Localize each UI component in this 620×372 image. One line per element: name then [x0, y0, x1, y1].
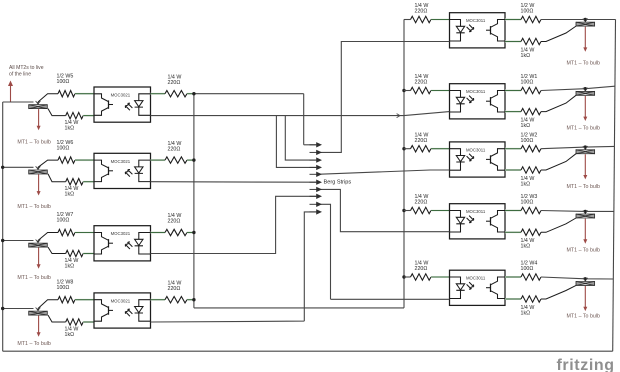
wire opto U9 to 1kΩ	[505, 298, 521, 300]
berg strip pin 10	[310, 209, 323, 214]
wire opto U7 to 1kΩ	[505, 169, 521, 171]
resistor 1/4W 220Ω row 6	[411, 87, 432, 93]
berg strip pin 5	[310, 172, 323, 177]
wire opto U5 to 100Ω	[505, 19, 521, 21]
label W4 value	[521, 261, 538, 273]
svg-text:1kΩ: 1kΩ	[65, 192, 75, 198]
svg-text:Berg Strips: Berg Strips	[324, 180, 352, 186]
svg-text:220Ω: 220Ω	[415, 80, 428, 86]
wire opto U8 to 100Ω	[505, 210, 521, 212]
opto-coupler U3 MOC3021	[94, 226, 151, 261]
opto-coupler U2 MOC3021	[94, 153, 151, 188]
berg strip pin 6	[310, 180, 323, 185]
svg-text:100Ω: 100Ω	[521, 200, 534, 206]
svg-text:MOC3011: MOC3011	[466, 147, 486, 152]
wire 1kΩ to triac Q6 gate	[541, 95, 576, 111]
opto-coupler U1 MOC3021	[94, 87, 151, 122]
label 1kΩ row 8	[521, 238, 535, 250]
label W2 value	[521, 132, 538, 144]
svg-text:MT1 – To bulb: MT1 – To bulb	[567, 126, 601, 132]
wire 100Ω to triac Q6 MT2 and live bus	[541, 86, 615, 90]
svg-text:220Ω: 220Ω	[168, 80, 181, 86]
svg-text:MT1 – To bulb: MT1 – To bulb	[17, 204, 51, 210]
wire live bus to triac Q1	[3, 101, 34, 103]
wire U1 cathode to berg pin 3	[285, 116, 316, 161]
wire anode bus drop	[303, 94, 305, 145]
wire anode bus to berg	[194, 93, 304, 95]
wire triac Q4 MT2 to resistor	[38, 300, 58, 309]
label 220Ω row 1	[168, 74, 182, 86]
node anode bus row 6	[402, 89, 405, 92]
label 220Ω row 8	[415, 194, 429, 206]
wire-end marker	[36, 101, 41, 104]
node triac Q5 MT2	[584, 18, 587, 21]
wire opto U4 anode lead	[151, 299, 166, 301]
wire U2 cathode to berg pin 6	[151, 181, 317, 184]
svg-text:220Ω: 220Ω	[415, 9, 428, 15]
wire anode bus to resistor row 7	[404, 148, 411, 150]
label W5 value	[57, 73, 74, 85]
svg-text:MT1 – To bulb: MT1 – To bulb	[17, 275, 51, 281]
svg-text:1kΩ: 1kΩ	[521, 244, 531, 250]
wire-end marker	[583, 19, 588, 22]
svg-text:MOC3021: MOC3021	[111, 231, 131, 236]
label 1kΩ row 9	[521, 305, 535, 317]
svg-text:MT1 – To bulb: MT1 – To bulb	[567, 61, 601, 67]
red arrow Q9 MT1 to bulb	[583, 286, 587, 311]
wire U6 cathode diagonal	[404, 112, 450, 116]
wire opto U3 anode lead	[151, 232, 166, 234]
wire anode bus to resistor row 9	[404, 276, 411, 278]
svg-text:1kΩ: 1kΩ	[65, 332, 75, 338]
svg-text:All MT2s to live: All MT2s to live	[9, 65, 44, 71]
wire live bus to triac Q4	[3, 308, 34, 310]
label 220Ω row 6	[415, 74, 429, 86]
resistor 1/4W 220Ω row 8	[411, 207, 432, 213]
node anode bus row 4	[192, 298, 195, 301]
node triac Q8 MT2	[584, 210, 587, 213]
wire U3 cathode to berg pin 8	[151, 196, 317, 253]
node anode bus row 2	[192, 158, 195, 161]
label 220Ω row 2	[168, 141, 182, 153]
red arrow Q4 MT1 to bulb	[37, 316, 41, 337]
svg-text:1kΩ: 1kΩ	[521, 123, 531, 129]
wire left MT2 bus	[2, 102, 4, 351]
svg-text:220Ω: 220Ω	[168, 286, 181, 292]
svg-text:220Ω: 220Ω	[168, 146, 181, 152]
wire 220Ω to opto U9	[431, 276, 449, 278]
wire anode bus to resistor row 6	[404, 90, 411, 92]
wire 100Ω to triac Q7 MT2 and live bus	[541, 146, 614, 148]
triac Q1	[29, 102, 48, 109]
node anode bus row 7	[402, 147, 405, 150]
wire U6 cathode to berg pin 4	[276, 116, 316, 168]
svg-text:1kΩ: 1kΩ	[65, 126, 75, 132]
red arrow Q2 MT1 to bulb	[37, 174, 41, 195]
resistor 1/4W 220Ω row 1	[165, 91, 187, 97]
label all MT2s to live of the line	[9, 65, 44, 78]
wire 100Ω to triac Q8 MT2 and live bus	[541, 210, 614, 213]
resistor 1/2W 100Ω W	[521, 16, 541, 22]
resistor 1/4W 1kΩ row 5	[521, 38, 541, 44]
wire opto U6 to 100Ω	[505, 90, 521, 92]
opto-coupler U5 MOC3011	[450, 13, 506, 48]
wire triac Q3 gate to resistor	[48, 247, 66, 253]
wire triac Q3 MT2 to resistor	[38, 233, 58, 241]
wire opto U2 anode lead	[151, 159, 166, 161]
svg-text:MT1 – To bulb: MT1 – To bulb	[567, 247, 601, 253]
red arrow Q7 MT1 to bulb	[583, 154, 587, 179]
svg-text:MOC3011: MOC3011	[466, 89, 486, 94]
node live bus row 4	[1, 307, 4, 310]
resistor 1/2W 100Ω W5	[58, 91, 75, 97]
resistor 1/4W 220Ω row 9	[411, 274, 432, 280]
svg-text:MT1 – To bulb: MT1 – To bulb	[17, 341, 51, 347]
wire 220Ω to anode bus	[187, 93, 194, 95]
wire U5 cathode to berg pin 2	[316, 42, 450, 153]
label W8 value	[57, 279, 74, 291]
svg-text:MOC3021: MOC3021	[111, 298, 131, 303]
label 220Ω row 4	[168, 280, 182, 292]
wire-end marker	[397, 114, 400, 118]
label 1kΩ row 2	[65, 186, 79, 198]
svg-text:220Ω: 220Ω	[415, 138, 428, 144]
triac Q9	[576, 279, 595, 286]
label 1kΩ row 7	[521, 176, 535, 188]
wire resistor to opto U4 pin	[75, 299, 94, 301]
berg strip pin 7	[310, 187, 323, 192]
red arrow Q8 MT1 to bulb	[583, 219, 587, 244]
wire resistor to opto U4 pin	[83, 321, 93, 323]
label 220Ω row 9	[415, 261, 429, 273]
wire triac Q2 gate to resistor	[48, 174, 66, 182]
wire 100Ω to triac Q9 MT2 and live bus	[541, 277, 613, 279]
opto-coupler U4 MOC3021	[94, 293, 151, 328]
node live bus row 2	[1, 166, 4, 169]
svg-text:MOC3011: MOC3011	[466, 276, 486, 281]
label 220Ω row 7	[415, 132, 429, 144]
resistor 1/2W 100Ω W1	[521, 87, 541, 93]
label W7 value	[57, 212, 74, 224]
wire 1kΩ to triac Q5 gate	[541, 26, 576, 41]
berg strip pin 1	[310, 142, 323, 147]
wire-end marker	[583, 88, 588, 91]
resistor 1/4W 1kΩ row 8	[521, 229, 541, 235]
wire anode bus to resistor row 8	[404, 210, 411, 212]
wire triac Q4 gate to resistor	[48, 315, 66, 322]
resistor 1/4W 220Ω row 4	[165, 297, 187, 303]
svg-text:220Ω: 220Ω	[415, 200, 428, 206]
berg strip pin 4	[310, 165, 323, 170]
node live bus row 3	[1, 239, 4, 242]
label 220Ω row 5	[415, 3, 429, 15]
wire opto U1 cathode / U6 cathode shared run	[151, 115, 405, 117]
svg-text:100Ω: 100Ω	[521, 80, 534, 86]
label 1kΩ row 6	[521, 118, 535, 130]
svg-text:MT1 – To bulb: MT1 – To bulb	[17, 140, 51, 146]
wire 220Ω to anode bus	[187, 299, 194, 301]
berg strip pin 3	[310, 157, 323, 162]
label 1kΩ row 5	[521, 47, 535, 59]
resistor 1/2W 100Ω W6	[58, 157, 75, 163]
wire opto U1 anode lead	[151, 93, 166, 95]
wire opto U7 to 100Ω	[505, 148, 521, 150]
wire 1kΩ to triac Q9 gate	[541, 285, 576, 299]
wire-end marker	[583, 278, 588, 281]
resistor 1/4W 1kΩ row 4	[66, 319, 84, 325]
node anode bus row 9	[402, 275, 405, 278]
svg-text:1kΩ: 1kΩ	[521, 310, 531, 316]
label 1kΩ row 4	[65, 327, 79, 339]
wire U8 cathode to berg pin 7	[316, 189, 450, 231]
node triac Q7 MT2	[584, 145, 587, 148]
wire 220Ω to anode bus	[187, 232, 194, 234]
resistor 1/4W 1kΩ row 9	[521, 296, 541, 302]
svg-text:1kΩ: 1kΩ	[521, 181, 531, 187]
wire triac Q1 gate to resistor	[48, 109, 66, 116]
wire-end marker	[583, 146, 588, 149]
label W3 value	[521, 194, 538, 206]
node anode bus row 3	[192, 231, 195, 234]
triac Q8	[576, 211, 595, 218]
svg-text:of the line: of the line	[9, 72, 31, 78]
wire U9 cathode to berg pin 9	[316, 204, 450, 299]
berg strip pin 8	[310, 194, 323, 199]
resistor 1/4W 1kΩ row 2	[66, 179, 84, 185]
wire-end marker	[36, 240, 41, 243]
wire anode bus to resistor row 5	[404, 19, 411, 21]
svg-text:fritzing: fritzing	[557, 357, 615, 372]
red arrow Q1 MT1 to bulb	[37, 109, 41, 130]
wire-end marker	[583, 210, 588, 213]
wire resistor to opto U1 pin	[83, 115, 93, 117]
svg-text:MT1 – To bulb: MT1 – To bulb	[567, 313, 601, 319]
resistor 1/4W 1kΩ row 6	[521, 108, 541, 114]
label W1 value	[521, 74, 538, 86]
wire opto U6 to 1kΩ	[505, 111, 521, 113]
wire U7 cathode to berg pin 5	[317, 170, 450, 174]
svg-text:100Ω: 100Ω	[57, 218, 70, 224]
wire opto U5 to 1kΩ	[505, 41, 521, 43]
berg strip pin 9	[310, 202, 323, 207]
wire opto U9 to 100Ω	[505, 276, 521, 278]
svg-text:220Ω: 220Ω	[415, 266, 428, 272]
wire 220Ω to opto U6	[431, 90, 449, 92]
resistor 1/2W 100Ω W4	[521, 274, 541, 280]
svg-text:100Ω: 100Ω	[57, 285, 70, 291]
wire triac Q2 MT2 to resistor	[38, 160, 58, 167]
svg-text:MT1 – To bulb: MT1 – To bulb	[567, 184, 601, 190]
resistor 1/4W 1kΩ row 3	[66, 250, 84, 256]
resistor 1/2W 100Ω W2	[521, 146, 541, 152]
label W value	[521, 3, 535, 15]
wire resistor to opto U1 pin	[75, 93, 94, 95]
wire 220Ω to opto U5	[431, 19, 449, 21]
wire resistor to opto U3 pin	[75, 232, 94, 234]
wire anode bus to pin 1	[304, 144, 316, 146]
wire 220Ω to anode bus	[187, 159, 194, 161]
wire live bus to triac Q2	[3, 166, 34, 168]
opto-coupler U8 MOC3011	[450, 204, 506, 239]
opto-coupler U6 MOC3011	[450, 84, 506, 119]
node anode bus row 1	[192, 92, 195, 95]
wire resistor to opto U2 pin	[75, 159, 94, 161]
label W6 value	[57, 140, 74, 152]
svg-text:100Ω: 100Ω	[57, 79, 70, 85]
wire resistor to opto U2 pin	[83, 181, 93, 183]
resistor 1/4W 220Ω row 5	[411, 16, 432, 22]
svg-text:MOC3011: MOC3011	[466, 18, 486, 23]
svg-text:100Ω: 100Ω	[521, 266, 534, 272]
wire 1kΩ to triac Q7 gate	[541, 154, 576, 170]
opto-coupler U7 MOC3011	[450, 142, 506, 177]
node triac Q6 MT2	[584, 87, 587, 90]
red arrow Q5 MT1 to bulb	[583, 27, 587, 52]
wire right MT2 bus	[613, 19, 616, 351]
wire resistor to opto U3 pin	[83, 253, 93, 255]
wire U4 cathode to berg pin 10	[151, 212, 317, 322]
triac Q4	[29, 309, 48, 316]
wire 220Ω to opto U7	[431, 148, 449, 150]
wire-end marker	[36, 166, 41, 169]
triac Q5	[576, 20, 595, 27]
node anode bus row 8	[402, 209, 405, 212]
svg-text:MOC3021: MOC3021	[111, 159, 131, 164]
resistor 1/4W 220Ω row 3	[165, 229, 187, 235]
wire opto U8 to 1kΩ	[505, 231, 521, 233]
svg-text:1kΩ: 1kΩ	[521, 53, 531, 59]
red arrow Q3 MT1 to bulb	[37, 248, 41, 269]
triac Q7	[576, 147, 595, 154]
label 1kΩ row 1	[65, 120, 79, 132]
berg strip pin 2	[310, 150, 323, 155]
node triac Q9 MT2	[584, 277, 587, 280]
wire live bus to triac Q3	[3, 240, 34, 242]
resistor 1/4W 1kΩ row 1	[66, 112, 84, 118]
triac Q6	[576, 89, 595, 96]
resistor 1/2W 100Ω W8	[58, 297, 75, 303]
svg-text:MOC3011: MOC3011	[466, 209, 486, 214]
svg-text:1kΩ: 1kΩ	[65, 264, 75, 270]
wire left LED anode bus	[193, 94, 195, 308]
svg-text:MOC3021: MOC3021	[111, 93, 131, 98]
resistor 1/4W 1kΩ row 7	[521, 167, 541, 173]
svg-text:100Ω: 100Ω	[57, 145, 70, 151]
wire anode bus bottom link	[194, 307, 404, 309]
wire 220Ω to opto U8	[431, 210, 449, 212]
wire 100Ω to triac Q5 MT2 and live bus	[541, 19, 616, 21]
triac Q2	[29, 167, 48, 174]
wire bottom MT2 bus	[3, 350, 613, 352]
triac Q3	[29, 241, 48, 248]
resistor 1/2W 100Ω W7	[58, 229, 75, 235]
red arrow Q6 MT1 to bulb	[583, 96, 587, 121]
wire right LED anode bus	[403, 19, 405, 308]
red arrow all MT2s to live	[8, 81, 13, 102]
label 1kΩ row 3	[65, 258, 79, 270]
wire 1kΩ to triac Q8 gate	[541, 218, 576, 232]
opto-coupler U9 MOC3011	[450, 270, 506, 305]
resistor 1/4W 220Ω row 2	[165, 157, 187, 163]
resistor 1/2W 100Ω W3	[521, 207, 541, 213]
label 220Ω row 3	[168, 213, 182, 225]
svg-text:220Ω: 220Ω	[168, 219, 181, 225]
svg-text:100Ω: 100Ω	[521, 138, 534, 144]
wire triac Q1 MT2 to resistor	[38, 94, 58, 102]
resistor 1/4W 220Ω row 7	[411, 146, 432, 152]
wire-end marker	[36, 308, 41, 311]
svg-text:100Ω: 100Ω	[521, 9, 534, 15]
